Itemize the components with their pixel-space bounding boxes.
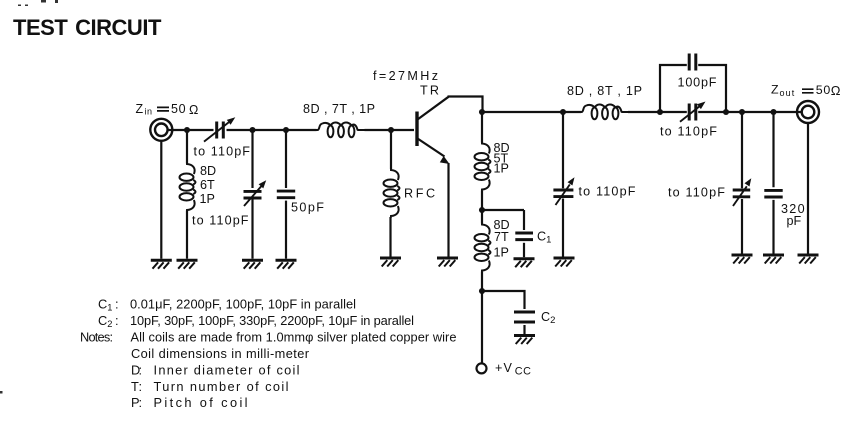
wire 100pF box left xyxy=(660,65,687,112)
capacitor C1 xyxy=(515,233,533,240)
capacitor C2 xyxy=(514,312,535,322)
wire branch varcap VC1 bottom xyxy=(251,200,253,259)
wire node to C2 xyxy=(482,291,525,309)
svg-text:to 110pF: to 110pF xyxy=(194,145,251,159)
ground under emitter xyxy=(437,258,458,267)
wire RFC branch bottom xyxy=(389,217,391,257)
wire branch trimmer VC2 top xyxy=(562,112,564,188)
ground under C1 xyxy=(514,259,535,268)
svg-text:to 110pF: to 110pF xyxy=(579,185,636,199)
ground under RFC xyxy=(380,258,401,267)
wire branch coil L1 top xyxy=(186,130,188,164)
svg-text:All coils are made from 1.0mmφ: All coils are made from 1.0mmφ silver pl… xyxy=(131,330,457,345)
wire C1 bottom lead xyxy=(523,243,525,257)
transistor TR emitter arrowhead xyxy=(440,156,450,164)
wire emitter to ground xyxy=(447,163,449,257)
node junction (773.5,112) xyxy=(770,109,776,115)
node Vcc junction (482,291) xyxy=(479,288,485,294)
trimmer arrow xyxy=(204,117,235,141)
svg-text:TEST CIRCUIT: TEST CIRCUIT xyxy=(13,15,162,40)
wire collector top xyxy=(448,97,483,113)
node junction (742,112) xyxy=(739,109,745,115)
ground under L1 xyxy=(177,260,198,269)
wire C1 top lead xyxy=(523,210,525,230)
wire RFC branch top xyxy=(390,130,392,169)
svg-text:8D: 8D xyxy=(200,164,216,178)
svg-text:6T: 6T xyxy=(200,178,215,192)
connector Zin xyxy=(150,119,172,141)
wire main left 1 xyxy=(168,129,214,131)
variable capacitor VC2 to 110pF xyxy=(553,190,573,197)
node junction (660,112) xyxy=(657,109,663,115)
ground under C2 xyxy=(514,336,535,345)
svg-text:C1: C1 xyxy=(537,230,551,246)
inductor L2 8D,7T,1P series xyxy=(316,123,365,138)
wire main right 3 xyxy=(698,111,802,113)
ground under VC3 xyxy=(732,255,753,264)
node junction A (x187) xyxy=(184,127,190,133)
node junction (563,112) xyxy=(560,109,566,115)
svg-text:to 110pF: to 110pF xyxy=(660,125,717,139)
scan specks top xyxy=(0,0,58,394)
terminal +Vcc xyxy=(477,363,487,373)
connector Zout xyxy=(797,101,819,123)
varcap VC1 arrow xyxy=(244,180,266,206)
node base junction (x391) xyxy=(388,127,394,133)
svg-text:Z: Z xyxy=(771,83,779,97)
wire connector to ground xyxy=(160,141,162,259)
svg-text:Ω: Ω xyxy=(189,103,198,117)
wire Zout connector to ground xyxy=(807,123,809,253)
wire main right 1 xyxy=(482,111,581,113)
trimmer capacitor series input (vertical bars) xyxy=(217,122,224,139)
svg-text:50: 50 xyxy=(816,83,831,97)
wire L3 to node xyxy=(481,191,483,211)
svg-text:to 110pF: to 110pF xyxy=(192,214,249,228)
wire coil L2 to base xyxy=(365,129,415,131)
wire C2 bottom lead xyxy=(523,325,525,334)
inductor L5 8D,8T,1P series xyxy=(580,105,629,120)
inductor L4 8D 7T 1P xyxy=(481,210,483,224)
ground under VC1 xyxy=(242,260,263,269)
svg-text:50pF: 50pF xyxy=(291,201,324,215)
svg-text:P :: P : xyxy=(131,395,142,410)
svg-text:8D , 8T , 1P: 8D , 8T , 1P xyxy=(567,84,642,98)
capacitor 50pF xyxy=(277,191,295,198)
varcap VC3 arrow xyxy=(733,178,751,206)
svg-text:D:: D: xyxy=(131,362,142,377)
inductor L1 8D 6T 1P xyxy=(180,163,196,212)
svg-text:10pF, 30pF, 100pF, 330pF, 2200: 10pF, 30pF, 100pF, 330pF, 2200pF, 10μF i… xyxy=(130,313,414,328)
svg-text:1P: 1P xyxy=(494,162,509,176)
node interstage (482,210) xyxy=(479,207,485,213)
wire branch trimmer VC3 bottom xyxy=(741,199,743,254)
label Zout = 50 ohm xyxy=(771,83,841,98)
wire branch cap 50pF top xyxy=(285,130,287,188)
ground under VC2 xyxy=(554,258,575,267)
svg-text:T :: T : xyxy=(131,379,142,394)
svg-text:to 110pF: to 110pF xyxy=(668,186,725,200)
wire branch cap 50pF bottom xyxy=(285,201,287,259)
svg-text:8D , 7T , 1P: 8D , 7T , 1P xyxy=(303,102,375,116)
label Zin = 50 ohm xyxy=(136,102,199,117)
ground under Zout xyxy=(798,255,819,264)
svg-text:RFC: RFC xyxy=(404,187,438,201)
varcap VC2 arrow xyxy=(556,177,575,205)
trimmer output arrow xyxy=(680,102,706,122)
svg-text:Pitch of coil: Pitch of coil xyxy=(154,395,248,410)
svg-text:100pF: 100pF xyxy=(678,76,717,90)
svg-text:1P: 1P xyxy=(494,245,509,259)
capacitor 100pF xyxy=(689,54,696,71)
svg-text:pF: pF xyxy=(787,214,802,228)
svg-text:Z: Z xyxy=(136,102,144,116)
svg-text:50: 50 xyxy=(171,102,186,116)
wire node to C1 xyxy=(482,209,524,211)
svg-text:in: in xyxy=(145,107,153,117)
node junction (726,112) xyxy=(723,109,729,115)
wire 100pF box right xyxy=(698,65,726,112)
inductor L3 8D 5T 1P xyxy=(475,142,491,191)
variable capacitor VC3 to 110pF xyxy=(733,190,751,197)
svg-text:TR: TR xyxy=(420,84,441,98)
svg-text:Turn number of coil: Turn number of coil xyxy=(154,379,289,394)
svg-text:Coil dimensions in milli-meter: Coil dimensions in milli-meter xyxy=(131,346,310,361)
wire branch trimmer VC2 bottom xyxy=(562,199,564,257)
wire main left 2 xyxy=(227,129,317,131)
ground under Zin connector xyxy=(151,260,172,269)
node collector junction (482,112) xyxy=(479,109,485,115)
node junction B (x251) xyxy=(249,127,255,133)
wire branch L3 (5T) top xyxy=(481,112,483,143)
svg-text:Notes:: Notes: xyxy=(80,330,113,345)
svg-text:C1 :: C1 : xyxy=(98,297,119,313)
svg-text:+V: +V xyxy=(495,361,513,375)
svg-text:1P: 1P xyxy=(200,192,215,206)
svg-text:out: out xyxy=(780,88,796,98)
transistor TR (NPN) xyxy=(417,97,449,157)
svg-text:f=27MHz: f=27MHz xyxy=(373,69,438,83)
wire branch trimmer VC3 top xyxy=(741,112,743,188)
svg-text:Ω: Ω xyxy=(831,83,841,98)
svg-text:C2 :: C2 : xyxy=(98,313,119,329)
svg-text:C2: C2 xyxy=(541,310,555,326)
variable capacitor VC1 to 110pF xyxy=(244,191,262,198)
wire L4 bottom to Vcc node xyxy=(481,272,483,364)
wire branch cap 320pF top xyxy=(772,112,774,187)
svg-text:Inner diameter of coil: Inner diameter of coil xyxy=(154,362,300,377)
wire branch cap 320pF bottom xyxy=(772,200,774,254)
wire branch coil L1 bottom xyxy=(186,211,188,259)
wire main right 2 xyxy=(628,111,687,113)
svg-text:0.01μF, 2200pF, 100pF, 10pF in: 0.01μF, 2200pF, 100pF, 10pF in parallel xyxy=(130,297,356,312)
ground under 50pF xyxy=(276,260,297,269)
wire branch varcap VC1 top xyxy=(251,130,253,188)
svg-text:CC: CC xyxy=(515,365,532,377)
ground under 320pF xyxy=(763,255,784,264)
trimmer capacitor series output (vertical bars) xyxy=(689,104,696,121)
svg-text:7T: 7T xyxy=(494,230,509,244)
inductor RFC xyxy=(384,169,400,218)
node junction C (x285) xyxy=(283,127,289,133)
capacitor 320pF xyxy=(764,190,782,197)
